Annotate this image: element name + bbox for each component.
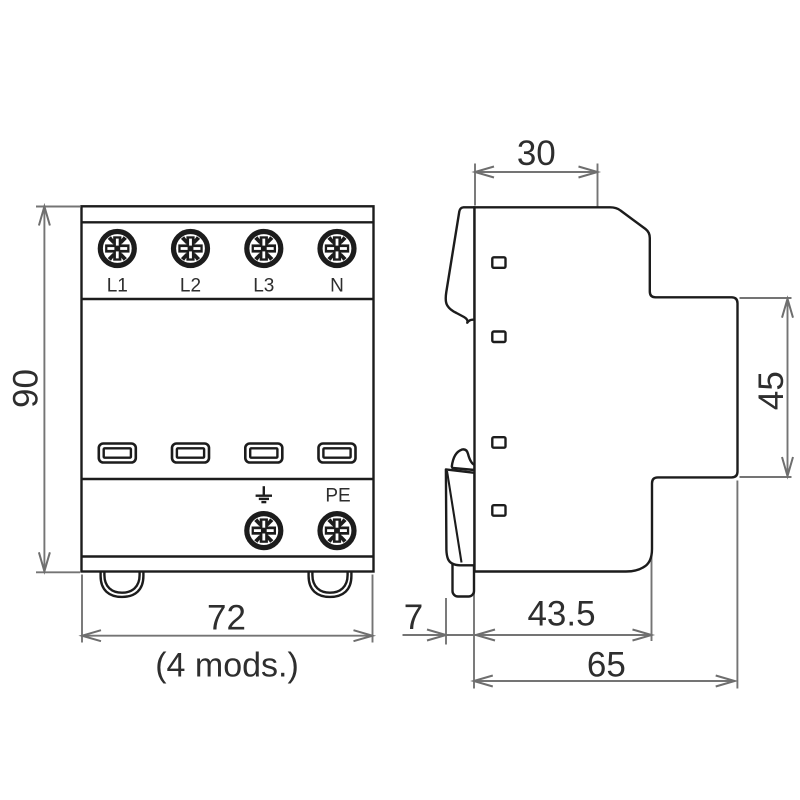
- svg-text:7: 7: [404, 598, 423, 637]
- svg-text:30: 30: [517, 134, 556, 173]
- svg-text:N: N: [330, 276, 344, 297]
- svg-text:72: 72: [207, 598, 246, 637]
- svg-text:(4 mods.): (4 mods.): [155, 647, 299, 685]
- svg-text:L2: L2: [180, 276, 201, 297]
- svg-text:65: 65: [587, 646, 626, 685]
- svg-text:45: 45: [752, 371, 791, 410]
- svg-text:43.5: 43.5: [527, 595, 595, 634]
- svg-text:L1: L1: [107, 276, 128, 297]
- svg-text:90: 90: [6, 369, 45, 408]
- svg-text:L3: L3: [253, 276, 274, 297]
- svg-text:PE: PE: [325, 486, 350, 507]
